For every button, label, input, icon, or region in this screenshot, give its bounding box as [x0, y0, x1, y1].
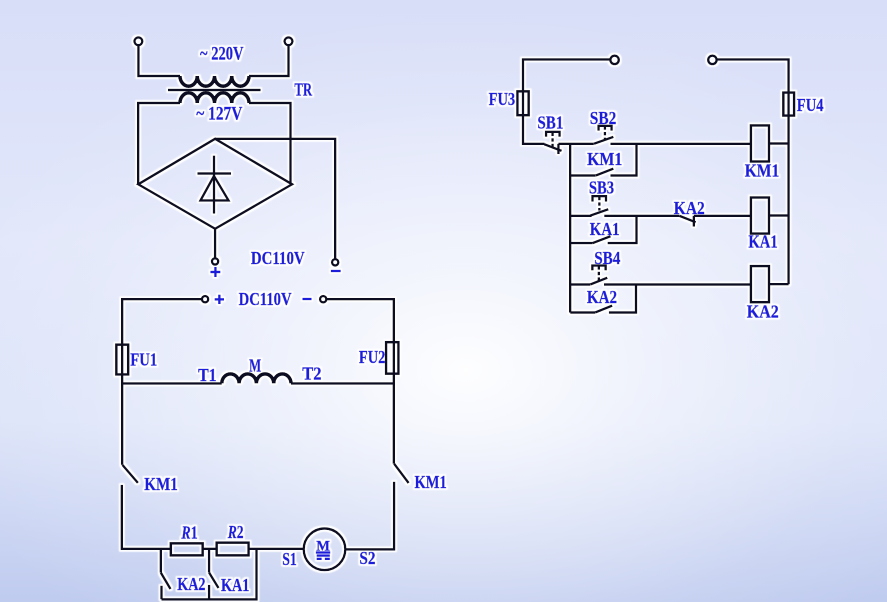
svg-text:~ 127V: ~ 127V [196, 103, 242, 124]
wire bridge minus output [215, 139, 335, 259]
wire coil KA1 to bus [769, 214, 789, 216]
fuse FU2 [386, 342, 398, 374]
svg-text:R1: R1 [181, 523, 198, 543]
minus sign rail [303, 298, 312, 300]
terminal left [135, 37, 143, 45]
svg-text:KM1: KM1 [144, 474, 178, 494]
motor underline [316, 551, 331, 553]
contact KA1 latch arm [593, 236, 611, 243]
wire row3 left [570, 215, 591, 217]
svg-text:S1: S1 [282, 549, 297, 569]
svg-text:KM1: KM1 [745, 161, 780, 181]
node vertical [569, 144, 571, 313]
contact KA2 arm [161, 573, 171, 589]
svg-text:FU2: FU2 [359, 347, 386, 367]
transformer core [168, 89, 261, 91]
wire SB1 to SB2 [558, 143, 594, 145]
wire SB2 to coil KM1 [611, 143, 751, 145]
wire bottom link [162, 549, 257, 600]
motor dc dashes [317, 558, 330, 560]
button SB3 cap [593, 196, 607, 201]
svg-text:KA2: KA2 [177, 574, 205, 594]
wire row4 left [570, 283, 590, 285]
wire KA1 branch drop [208, 549, 210, 573]
transformer TR secondary winding [180, 93, 249, 103]
svg-text:T1: T1 [198, 365, 217, 385]
minus sign [331, 270, 341, 272]
wire top rail right [326, 299, 394, 464]
svg-text:KA2: KA2 [587, 287, 617, 307]
button SB4 cap [592, 266, 605, 271]
wire coil KM1 to bus [769, 142, 789, 144]
wire SB3 to KA2nc [604, 215, 679, 217]
plus sign rail [215, 295, 224, 304]
diode triangle [201, 176, 229, 200]
wire armature row left [122, 382, 222, 384]
svg-text:KA1: KA1 [748, 231, 777, 251]
contact SB1 stub [557, 144, 559, 154]
coil KA1 [751, 198, 769, 234]
svg-text:KA1: KA1 [590, 219, 620, 239]
svg-text:KM1: KM1 [587, 149, 622, 169]
wire latch KA1 row [570, 242, 592, 244]
coil KM1 [751, 125, 769, 161]
svg-text:FU4: FU4 [797, 95, 824, 115]
fuse FU3 [517, 91, 528, 115]
contact SB4 arm [590, 278, 607, 285]
resistor R2 [217, 543, 249, 556]
wire primary left lead [138, 46, 180, 76]
wire coil KA2 to bus [769, 283, 789, 285]
button SB4 plunger [598, 266, 600, 281]
resistor R1 [171, 543, 203, 555]
plus sign [210, 267, 220, 277]
diode cathode bar [198, 172, 232, 174]
wire KA2 branch stub [160, 586, 162, 600]
svg-text:R2: R2 [227, 522, 244, 542]
terminal right [285, 37, 293, 45]
armature winding M [222, 374, 291, 384]
wire KA1 branch stub [208, 585, 210, 599]
wire SB4 to coil KA2 [604, 283, 751, 285]
fuse FU4 [783, 93, 794, 116]
coil KA2 [751, 266, 769, 302]
contact SB2 arm [594, 137, 614, 144]
wire secondary left to bridge [138, 103, 180, 184]
wire armature row right [291, 382, 394, 384]
svg-text:KA1: KA1 [221, 575, 249, 595]
svg-text:TR: TR [294, 79, 312, 99]
svg-text:KM1: KM1 [415, 472, 447, 492]
button SB1 cap [546, 132, 560, 137]
button SB3 plunger [598, 197, 600, 211]
wire KA2 branch drop [160, 549, 162, 573]
transformer TR primary winding [180, 76, 249, 86]
motor M circle [304, 529, 346, 571]
svg-text:~ 220V: ~ 220V [200, 43, 244, 64]
svg-text:DC110V: DC110V [251, 248, 305, 268]
motor dc bar [317, 554, 330, 556]
fuse FU1 [116, 345, 128, 375]
wire latch KM1 row [570, 174, 596, 176]
terminal plus [212, 258, 218, 264]
contact KM1 left arm [122, 465, 137, 483]
svg-text:SB1: SB1 [537, 113, 563, 133]
terminal rail plus [202, 296, 208, 302]
contact KA1 arm [209, 573, 218, 588]
contact SB1 arm [544, 144, 561, 151]
wire primary right lead [249, 46, 289, 76]
contact SB3 arm [590, 209, 608, 215]
contact KA2 latch arm [595, 306, 612, 313]
svg-text:T2: T2 [302, 363, 321, 383]
svg-text:SB2: SB2 [590, 108, 617, 128]
bridge rectifier diamond [138, 139, 292, 229]
wire ctrl right feed [716, 59, 789, 284]
terminal ctrl left [610, 56, 618, 64]
svg-text:FU3: FU3 [489, 89, 516, 109]
button SB1 plunger [551, 133, 553, 148]
wire latch KA1 up [608, 216, 637, 243]
svg-text:SB3: SB3 [589, 177, 614, 197]
svg-text:KA2: KA2 [747, 302, 779, 322]
wire top rail left [122, 299, 202, 465]
wire latch KA2 row [570, 311, 595, 313]
wire R2 to motor [249, 548, 304, 550]
svg-text:S2: S2 [359, 548, 375, 568]
contact KM1 latch arm [596, 169, 614, 176]
wire KA2nc to coil KA1 [694, 215, 751, 217]
wire R1-R2 [203, 548, 217, 550]
svg-text:M: M [249, 355, 261, 375]
button SB2 plunger [604, 126, 606, 140]
button SB2 cap [599, 126, 612, 131]
wire secondary right to bridge [249, 103, 291, 184]
diode lead [213, 156, 215, 214]
wire left lower [122, 485, 171, 549]
wire latch KM1 up [611, 144, 637, 176]
terminal rail minus [320, 296, 326, 302]
contact KA2 nc arm [679, 216, 696, 223]
terminal ctrl right [708, 56, 716, 64]
wire ctrl left feed [523, 59, 611, 143]
contact KM1 right arm [394, 464, 409, 483]
contact KA2 nc stub [693, 216, 695, 227]
wire bridge plus output [214, 229, 216, 258]
wire motor right [345, 482, 394, 550]
svg-text:DC110V: DC110V [239, 289, 292, 309]
svg-text:SB4: SB4 [594, 248, 620, 268]
svg-text:FU1: FU1 [130, 349, 157, 369]
terminal minus [332, 259, 338, 265]
wire latch KA2 up [609, 285, 636, 313]
